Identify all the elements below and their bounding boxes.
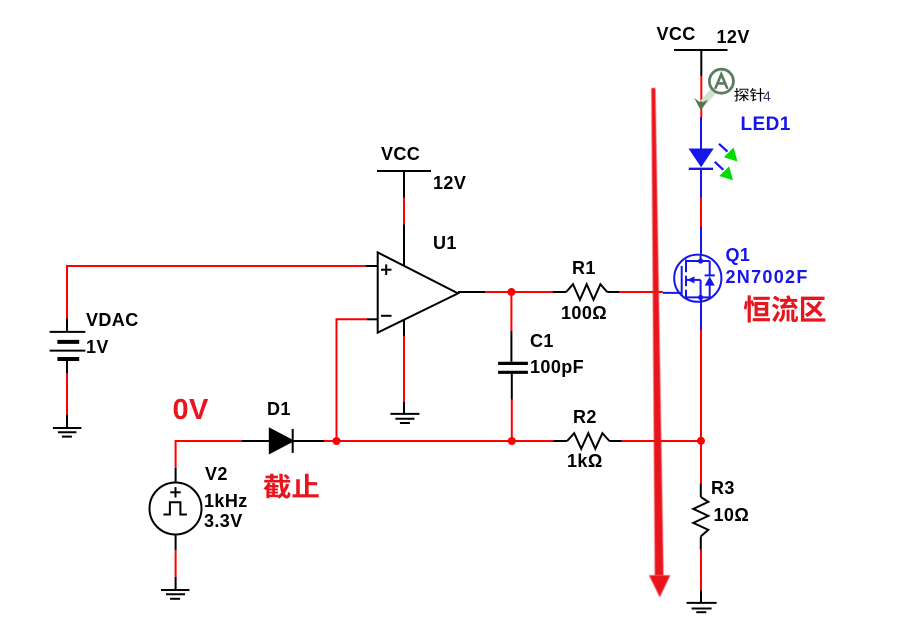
wire Q1 source to node B	[700, 330, 702, 441]
label 10ohm	[714, 506, 750, 524]
wire VDAC minus to ground	[66, 373, 68, 415]
resistor R2 1kohm	[553, 433, 621, 449]
probe 4 current probe (A)	[694, 69, 733, 111]
label C1	[530, 332, 554, 350]
wire VDAC to op-amp + input	[67, 266, 366, 319]
wire VCC to op-amp V+ pin	[403, 198, 405, 225]
LED1 emission arrow 1	[719, 144, 728, 152]
wire output node to C1 top	[510, 292, 512, 331]
ground (V2)	[161, 577, 190, 599]
label 1kohm	[567, 452, 603, 470]
wire C1 bottom to node C	[511, 400, 513, 441]
wire op-amp V- pin to ground	[403, 336, 405, 402]
CJK annotation 截止 (cutoff)	[263, 474, 318, 499]
CJK probe label 探针	[734, 88, 764, 101]
node A junction dot (D1/R2/op-amp inverting)	[333, 437, 341, 445]
label VCC (left)	[381, 145, 420, 163]
ground (R3)	[687, 590, 717, 612]
LED1 emission arrow 2	[715, 162, 724, 170]
label 2N7002F	[726, 268, 809, 286]
node B junction dot (Q1 source/R2/R3)	[697, 437, 705, 445]
wire LED1 cathode to Q1 drain	[700, 197, 702, 227]
wire R1 to Q1 gate	[619, 291, 663, 293]
wire D1 to R2 (bottom rail)	[324, 440, 553, 442]
ground (VDAC)	[53, 415, 82, 437]
resistor R3 10ohm	[693, 483, 708, 549]
annotation 0V	[173, 396, 209, 425]
CJK annotation 恒流区 (constant-current region)	[744, 295, 826, 322]
label LED1	[741, 115, 791, 134]
label 1kHz	[204, 492, 248, 510]
label 12V (right)	[717, 28, 750, 46]
label 1V	[86, 338, 109, 356]
node output junction dot (op-amp out/R1/C1)	[507, 288, 515, 296]
resistor R1 100ohm	[553, 284, 619, 300]
source V2 (1kHz 3.3V square wave)	[150, 468, 202, 550]
label 100pF	[530, 358, 584, 376]
wire node B to R3	[700, 441, 702, 483]
label D1	[267, 400, 291, 418]
label R1	[572, 259, 596, 277]
wire R2 to node B	[622, 440, 701, 442]
label 100ohm	[561, 304, 607, 322]
label U1	[433, 234, 457, 252]
label V2	[205, 465, 228, 483]
op-amp U1	[366, 224, 485, 336]
wire VCC rail to probe	[700, 76, 702, 117]
label 3.3V	[204, 512, 243, 530]
label R2	[573, 408, 597, 426]
transistor Q1 2N7002F (N-MOSFET)	[663, 227, 721, 330]
label VCC (right)	[657, 25, 696, 43]
node C junction dot (C1/R2 rail)	[508, 437, 516, 445]
annotation big red arrow	[651, 88, 663, 575]
label Q1	[726, 246, 751, 264]
power symbol VCC (left, op-amp supply)	[377, 171, 431, 198]
label VDAC	[86, 311, 139, 329]
power symbol VCC (right, LED supply)	[674, 50, 728, 76]
wire R3 to ground	[700, 550, 702, 591]
ground (op-amp)	[390, 402, 419, 423]
wire op-amp output to R1	[485, 291, 553, 293]
diode D1	[242, 429, 324, 453]
wire V2 to diode D1	[176, 441, 242, 468]
label R3	[711, 479, 735, 497]
LED1	[689, 117, 714, 197]
battery VDAC	[50, 319, 86, 374]
label 12V (left)	[433, 174, 466, 192]
wire node A to op-amp - input	[337, 319, 368, 441]
wire V2 minus to ground	[175, 550, 177, 577]
label probe number 4	[763, 89, 771, 103]
capacitor C1 100pF	[498, 331, 528, 400]
